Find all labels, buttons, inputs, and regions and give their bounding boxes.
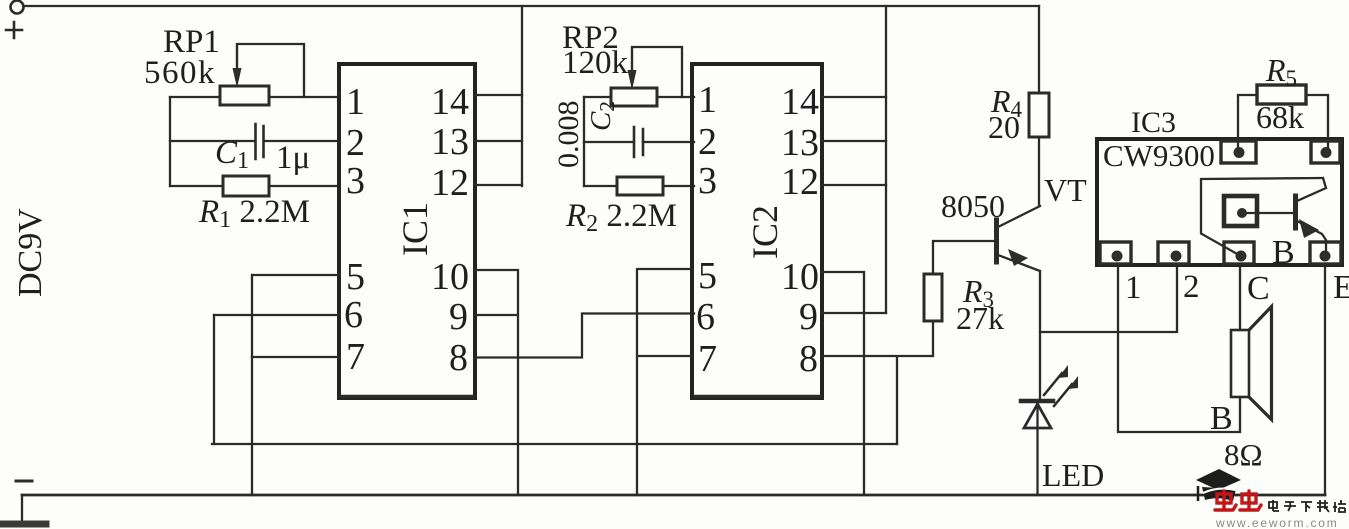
svg-text:560k: 560k bbox=[144, 55, 216, 91]
svg-text:www.eeworm.com: www.eeworm.com bbox=[1215, 516, 1339, 529]
svg-text:DC9V: DC9V bbox=[12, 208, 49, 297]
svg-text:B: B bbox=[1272, 234, 1295, 271]
svg-text:14: 14 bbox=[781, 81, 819, 123]
svg-text:20: 20 bbox=[988, 109, 1020, 145]
svg-text:2: 2 bbox=[698, 121, 717, 163]
svg-text:5: 5 bbox=[346, 256, 365, 298]
svg-text:3: 3 bbox=[346, 160, 365, 202]
svg-text:2: 2 bbox=[1183, 269, 1200, 305]
svg-text:B: B bbox=[1210, 400, 1233, 437]
svg-text:1μ: 1μ bbox=[276, 140, 310, 176]
svg-text:120k: 120k bbox=[562, 45, 629, 81]
svg-text:8: 8 bbox=[449, 337, 468, 379]
svg-text:7: 7 bbox=[698, 338, 717, 380]
svg-text:12: 12 bbox=[431, 162, 469, 204]
svg-text:C2: C2 bbox=[585, 101, 619, 131]
svg-text:1: 1 bbox=[1125, 270, 1142, 306]
svg-text:CW9300: CW9300 bbox=[1103, 138, 1215, 173]
svg-text:E: E bbox=[1333, 269, 1349, 306]
svg-text:1: 1 bbox=[346, 81, 365, 123]
svg-text:8050: 8050 bbox=[941, 188, 1005, 224]
svg-text:13: 13 bbox=[431, 121, 469, 163]
svg-text:27k: 27k bbox=[956, 300, 1004, 336]
svg-text:12: 12 bbox=[781, 161, 819, 203]
svg-text:14: 14 bbox=[431, 81, 469, 123]
svg-text:68k: 68k bbox=[1256, 99, 1304, 135]
svg-text:9: 9 bbox=[799, 296, 818, 338]
svg-text:R2 2.2M: R2 2.2M bbox=[565, 198, 677, 237]
svg-text:9: 9 bbox=[449, 296, 468, 338]
svg-text:R5: R5 bbox=[1265, 52, 1297, 91]
svg-text:7: 7 bbox=[346, 336, 365, 378]
svg-text:10: 10 bbox=[431, 256, 469, 298]
svg-text:8Ω: 8Ω bbox=[1224, 437, 1263, 472]
svg-text:IC2: IC2 bbox=[745, 205, 785, 259]
svg-text:LED: LED bbox=[1042, 457, 1104, 493]
svg-text:VT: VT bbox=[1044, 172, 1087, 208]
svg-text:8: 8 bbox=[799, 338, 818, 380]
svg-text:3: 3 bbox=[698, 160, 717, 202]
svg-text:6: 6 bbox=[344, 294, 363, 336]
svg-text:C: C bbox=[1247, 270, 1270, 307]
svg-text:1: 1 bbox=[698, 79, 717, 121]
svg-text:IC1: IC1 bbox=[395, 202, 435, 256]
svg-text:6: 6 bbox=[696, 296, 715, 338]
svg-text:0.008: 0.008 bbox=[552, 101, 585, 169]
svg-text:2: 2 bbox=[346, 122, 365, 164]
svg-text:5: 5 bbox=[698, 255, 717, 297]
svg-text:R1 2.2M: R1 2.2M bbox=[198, 194, 310, 233]
svg-text:IC3: IC3 bbox=[1131, 106, 1176, 139]
svg-text:13: 13 bbox=[781, 122, 819, 164]
svg-text:10: 10 bbox=[781, 256, 819, 298]
